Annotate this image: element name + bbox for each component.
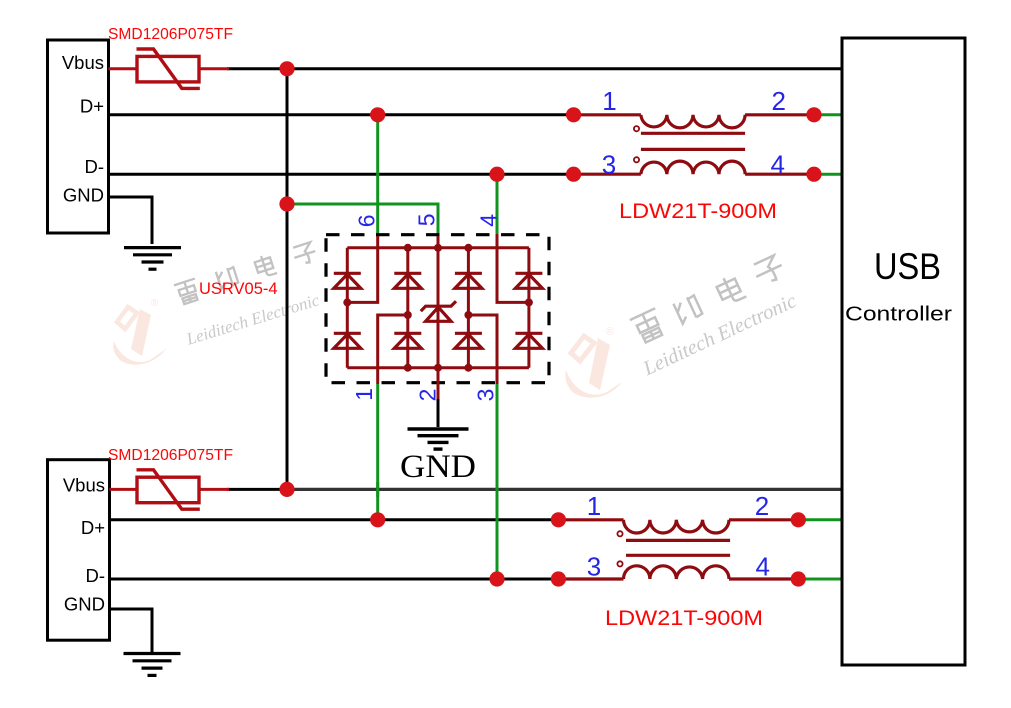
U1 pin number 1 — [351, 388, 377, 401]
wire D- top — [109, 173, 574, 176]
wire D+ bottom — [110, 518, 559, 521]
svg-text:2: 2 — [755, 491, 769, 521]
svg-text:Controller: Controller — [845, 304, 952, 326]
wire green overlay pin3 over Vbus bottom — [496, 482, 499, 497]
wire green Vbus tap to U1 pin5 — [287, 204, 438, 237]
wire GND J1 — [109, 197, 153, 244]
svg-text:3: 3 — [472, 389, 498, 402]
watermark left: chinese text 雷卯电子 (drawn strokes) — [174, 242, 318, 306]
ground symbol U1 pin2 — [408, 429, 469, 449]
wire green L2 pin2 to controller — [798, 518, 843, 521]
wire green L1 pin4 to controller — [814, 173, 843, 176]
U1 pin number 2 — [414, 389, 440, 402]
svg-text:1: 1 — [587, 491, 601, 521]
svg-text:6: 6 — [354, 214, 380, 227]
U1 internal junction dots — [343, 244, 533, 372]
svg-text:D-: D- — [85, 565, 105, 586]
wire Vbus bottom (black stub) — [227, 488, 287, 491]
choke L1 LDW21T-900M (common-mode) — [574, 115, 814, 174]
USB controller box U2 — [842, 38, 965, 665]
svg-text:1: 1 — [602, 86, 616, 116]
wire green D- to U1 pin4 — [496, 174, 499, 235]
wire D+ top — [109, 113, 574, 116]
U1 column D wire — [527, 248, 530, 368]
U1 pin number 3 — [472, 389, 498, 402]
wire Vbus top (black net) — [227, 67, 843, 70]
wire green U1 pin1 to D+ bottom — [376, 384, 379, 520]
wire green D+ to U1 pin6 — [376, 115, 379, 237]
svg-text:®: ® — [606, 326, 614, 338]
svg-text:4: 4 — [770, 150, 784, 180]
fuse F1 SMD1206P075TF — [109, 49, 230, 88]
svg-text:2: 2 — [771, 86, 785, 116]
watermark middle: Leiditech logo — [565, 326, 622, 398]
junction dots (red) — [279, 61, 821, 586]
fuse F2 SMD1206P075TF — [110, 470, 230, 509]
svg-text:®: ® — [151, 298, 159, 309]
U1 center wire (pin5 to pin2) — [437, 236, 440, 384]
U1 pin number 6 — [354, 214, 380, 227]
U1 dashed boundary — [326, 235, 549, 383]
svg-text:1: 1 — [351, 388, 377, 401]
U1 pin number 4 — [475, 214, 501, 227]
svg-text:SMD1206P075TF: SMD1206P075TF — [108, 26, 233, 43]
svg-text:GND: GND — [400, 449, 476, 485]
watermark middle: chinese text 雷卯电子 (drawn strokes) — [630, 254, 786, 344]
svg-text:LDW21T-900M: LDW21T-900M — [619, 200, 777, 223]
svg-text:Vbus: Vbus — [62, 52, 104, 73]
U1 column B wire — [406, 248, 409, 368]
U1 column A wire — [346, 248, 349, 368]
wire green L2 pin4 to controller — [798, 578, 843, 581]
U1 bottom rail — [347, 366, 529, 369]
svg-text:GND: GND — [63, 185, 104, 206]
ground symbol J2 — [124, 654, 181, 676]
svg-text:D-: D- — [84, 156, 104, 177]
wire green L1 pin2 to controller — [814, 113, 843, 116]
U1 top rail — [347, 246, 529, 249]
U1 pin6 jog to column A — [347, 236, 377, 302]
U1 pin1 jog to column B — [378, 315, 408, 384]
svg-text:GND: GND — [64, 594, 105, 615]
U1 diodes (8) — [334, 273, 543, 348]
svg-text:SMD1206P075TF: SMD1206P075TF — [108, 447, 233, 464]
U1 column C wire — [467, 248, 470, 368]
wire Vbus vertical link — [286, 69, 289, 490]
wire GND J2 — [110, 609, 153, 652]
U1 zener diode — [421, 301, 456, 321]
svg-text:4: 4 — [475, 214, 501, 227]
watermark left: Leiditech logo — [113, 298, 166, 365]
U1 internal wiring — [347, 234, 529, 384]
svg-text:5: 5 — [413, 214, 439, 227]
ground symbol J1 — [124, 248, 181, 270]
wire U1 pin2 to ground — [437, 382, 440, 399]
svg-text:4: 4 — [755, 552, 769, 582]
U1 pin3 jog to column C — [468, 315, 497, 384]
wire green overlay pin1 over Vbus bottom — [376, 482, 379, 497]
connector J1 (top USB receptacle) — [48, 40, 109, 233]
wire green U1 pin3 to D- bottom — [496, 384, 499, 579]
wire green overlay pin3 over D+ bottom — [496, 513, 499, 527]
connector J2 (bottom USB receptacle) — [48, 460, 110, 641]
svg-text:D+: D+ — [80, 96, 104, 117]
wire Vbus bottom (gray net) — [287, 488, 843, 491]
svg-text:USRV05-4: USRV05-4 — [199, 280, 278, 298]
svg-text:LDW21T-900M: LDW21T-900M — [605, 607, 763, 630]
wire D- bottom — [110, 578, 559, 581]
svg-text:D+: D+ — [81, 517, 105, 538]
U1 pin4 jog to column D — [497, 234, 529, 302]
U1 pin number 5 — [413, 214, 439, 227]
svg-text:Leiditech Electronic: Leiditech Electronic — [183, 290, 322, 349]
svg-text:3: 3 — [587, 552, 601, 582]
svg-text:Vbus: Vbus — [63, 475, 105, 496]
svg-text:USB: USB — [874, 246, 941, 287]
choke L2 LDW21T-900M (common-mode) — [558, 520, 798, 579]
svg-text:3: 3 — [602, 150, 616, 180]
